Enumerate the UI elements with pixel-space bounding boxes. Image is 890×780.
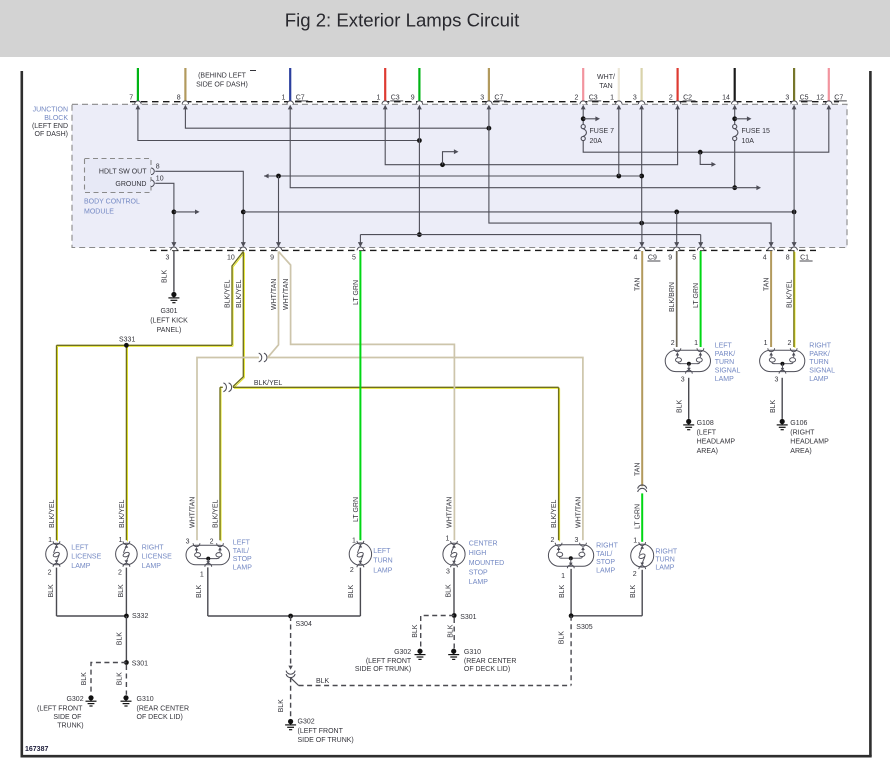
svg-text:TURN: TURN [655, 557, 674, 564]
svg-text:BLK: BLK [412, 624, 419, 638]
svg-text:BLK: BLK [559, 631, 566, 645]
svg-text:2: 2 [210, 538, 214, 545]
svg-text:TAN: TAN [635, 463, 642, 476]
svg-text:WHT/: WHT/ [597, 74, 615, 81]
svg-text:1: 1 [610, 94, 614, 101]
svg-text:BLK: BLK [677, 399, 684, 413]
svg-text:WHT/TAN: WHT/TAN [283, 279, 290, 310]
svg-text:20A: 20A [590, 138, 603, 145]
svg-text:WHT/TAN: WHT/TAN [271, 279, 278, 310]
svg-text:TAN: TAN [599, 83, 612, 90]
svg-text:LAMP: LAMP [655, 565, 674, 572]
svg-text:C5: C5 [800, 94, 809, 101]
svg-text:STOP: STOP [233, 556, 252, 563]
svg-text:1: 1 [281, 94, 285, 101]
svg-text:G310: G310 [464, 649, 481, 656]
svg-text:Fig 2: Exterior Lamps Circuit: Fig 2: Exterior Lamps Circuit [285, 10, 520, 31]
svg-text:4: 4 [633, 255, 637, 262]
svg-text:BLK: BLK [196, 584, 203, 598]
svg-text:G301: G301 [160, 308, 177, 315]
svg-text:CENTER: CENTER [469, 541, 498, 548]
svg-text:BLK: BLK [118, 584, 125, 598]
svg-text:RIGHT: RIGHT [142, 545, 165, 552]
svg-text:(REAR CENTER: (REAR CENTER [137, 705, 190, 712]
svg-text:FUSE 7: FUSE 7 [590, 128, 615, 135]
svg-text:G310: G310 [137, 696, 154, 703]
svg-text:WHT/TAN: WHT/TAN [447, 497, 454, 528]
svg-text:OF DASH): OF DASH) [35, 131, 68, 138]
svg-text:3: 3 [186, 538, 190, 545]
svg-text:HEADLAMP: HEADLAMP [790, 439, 829, 446]
svg-text:LT GRN: LT GRN [353, 497, 360, 522]
svg-text:LT GRN: LT GRN [693, 283, 700, 308]
svg-text:TAN: TAN [764, 278, 771, 291]
svg-text:G108: G108 [697, 420, 714, 427]
svg-text:LAMP: LAMP [715, 376, 734, 383]
svg-text:1: 1 [352, 537, 356, 544]
svg-text:1: 1 [694, 340, 698, 347]
svg-text:1: 1 [445, 536, 449, 543]
svg-text:G106: G106 [790, 420, 807, 427]
svg-text:(LEFT: (LEFT [697, 429, 717, 436]
svg-text:BODY CONTROL: BODY CONTROL [84, 199, 140, 206]
svg-text:BLK/YEL: BLK/YEL [551, 499, 558, 528]
svg-text:C7: C7 [296, 94, 305, 101]
svg-text:4: 4 [763, 255, 767, 262]
svg-text:(LEFT FRONT: (LEFT FRONT [366, 658, 412, 665]
svg-text:C1: C1 [800, 255, 809, 262]
svg-text:AREA): AREA) [697, 448, 718, 455]
svg-text:G302: G302 [66, 696, 83, 703]
svg-text:BLK: BLK [316, 678, 330, 685]
svg-text:S332: S332 [132, 613, 148, 620]
svg-text:C7: C7 [494, 94, 503, 101]
svg-text:OF DECK LID): OF DECK LID) [464, 666, 510, 673]
svg-text:C9: C9 [648, 255, 657, 262]
svg-text:BLK: BLK [445, 584, 452, 598]
svg-text:LAMP: LAMP [373, 567, 392, 574]
svg-text:2: 2 [48, 569, 52, 576]
svg-text:TRUNK): TRUNK) [57, 722, 83, 729]
svg-text:C3: C3 [589, 94, 598, 101]
svg-text:SIGNAL: SIGNAL [715, 368, 741, 375]
svg-text:1: 1 [633, 537, 637, 544]
svg-text:C7: C7 [834, 94, 843, 101]
svg-text:PANEL): PANEL) [157, 327, 182, 334]
svg-text:(LEFT FRONT: (LEFT FRONT [298, 728, 344, 735]
svg-text:RIGHT: RIGHT [655, 549, 678, 556]
svg-text:HDLT SW OUT: HDLT SW OUT [99, 169, 147, 176]
svg-text:MOUNTED: MOUNTED [469, 560, 504, 567]
svg-text:PARK/: PARK/ [715, 351, 736, 358]
svg-text:5: 5 [352, 255, 356, 262]
svg-text:5: 5 [692, 255, 696, 262]
svg-text:3: 3 [446, 569, 450, 576]
svg-text:SIDE OF: SIDE OF [53, 714, 81, 721]
svg-text:8: 8 [156, 164, 160, 171]
svg-text:BLK: BLK [81, 672, 88, 686]
svg-text:1: 1 [764, 340, 768, 347]
svg-text:1: 1 [118, 537, 122, 544]
svg-text:BLK/BRN: BLK/BRN [669, 282, 676, 312]
svg-text:G302: G302 [394, 649, 411, 656]
svg-text:LICENSE: LICENSE [71, 554, 101, 561]
svg-text:(RIGHT: (RIGHT [790, 429, 815, 436]
svg-text:STOP: STOP [469, 569, 488, 576]
svg-text:9: 9 [270, 255, 274, 262]
svg-text:10: 10 [227, 255, 235, 262]
svg-text:3: 3 [574, 537, 578, 544]
svg-text:10: 10 [156, 176, 164, 183]
svg-text:(LEFT END: (LEFT END [32, 123, 68, 130]
svg-text:WHT/TAN: WHT/TAN [190, 497, 197, 528]
svg-text:2: 2 [669, 94, 673, 101]
svg-text:G302: G302 [298, 719, 315, 726]
svg-text:10A: 10A [742, 138, 755, 145]
svg-text:BLK/YEL: BLK/YEL [786, 279, 793, 308]
svg-text:3: 3 [633, 94, 637, 101]
svg-text:LEFT: LEFT [233, 540, 251, 547]
svg-text:BLK: BLK [630, 584, 637, 598]
svg-text:1: 1 [200, 572, 204, 579]
svg-text:FUSE 15: FUSE 15 [742, 128, 771, 135]
svg-text:LT GRN: LT GRN [353, 280, 360, 305]
svg-text:TURN: TURN [809, 359, 828, 366]
svg-text:2: 2 [787, 340, 791, 347]
svg-text:BLK: BLK [448, 624, 455, 638]
svg-text:C3: C3 [391, 94, 400, 101]
svg-text:3: 3 [785, 94, 789, 101]
svg-text:LAMP: LAMP [469, 579, 488, 586]
svg-text:SIDE OF TRUNK): SIDE OF TRUNK) [355, 666, 411, 673]
svg-text:BLK: BLK [559, 584, 566, 598]
svg-text:9: 9 [411, 94, 415, 101]
svg-text:2: 2 [633, 571, 637, 578]
svg-text:(REAR CENTER: (REAR CENTER [464, 658, 517, 665]
svg-text:LAMP: LAMP [596, 568, 615, 575]
svg-text:2: 2 [671, 340, 675, 347]
svg-text:GROUND: GROUND [115, 181, 146, 188]
svg-text:14: 14 [722, 94, 730, 101]
svg-text:BLK: BLK [162, 269, 169, 283]
svg-text:LAMP: LAMP [809, 376, 828, 383]
svg-text:AREA): AREA) [790, 448, 811, 455]
svg-text:S331: S331 [119, 336, 135, 343]
svg-text:BLK: BLK [116, 632, 123, 646]
svg-text:JUNCTION: JUNCTION [33, 107, 68, 114]
svg-text:SIDE OF DASH): SIDE OF DASH) [196, 82, 248, 89]
svg-text:BLK/YEL: BLK/YEL [254, 380, 283, 387]
svg-text:HEADLAMP: HEADLAMP [697, 439, 736, 446]
svg-text:LEFT: LEFT [715, 342, 733, 349]
svg-text:8: 8 [177, 94, 181, 101]
svg-text:LAMP: LAMP [233, 564, 252, 571]
svg-text:LICENSE: LICENSE [142, 554, 172, 561]
svg-text:RIGHT: RIGHT [596, 543, 619, 550]
svg-text:S305: S305 [576, 624, 592, 631]
svg-text:TURN: TURN [373, 558, 392, 565]
svg-text:LEFT: LEFT [373, 548, 391, 555]
svg-text:(LEFT KICK: (LEFT KICK [150, 318, 188, 325]
svg-text:TURN: TURN [715, 359, 734, 366]
svg-text:S301: S301 [460, 614, 476, 621]
svg-text:WHT/TAN: WHT/TAN [576, 497, 583, 528]
svg-text:STOP: STOP [596, 559, 615, 566]
svg-text:SIDE OF TRUNK): SIDE OF TRUNK) [298, 737, 354, 744]
svg-text:BLK: BLK [770, 399, 777, 413]
svg-text:1: 1 [48, 537, 52, 544]
svg-text:3: 3 [480, 94, 484, 101]
svg-text:(LEFT FRONT: (LEFT FRONT [37, 705, 83, 712]
svg-text:1: 1 [561, 573, 565, 580]
svg-text:HIGH: HIGH [469, 550, 487, 557]
svg-text:BLK/YEL: BLK/YEL [49, 499, 56, 528]
svg-text:TAN: TAN [635, 278, 642, 291]
svg-text:2: 2 [550, 537, 554, 544]
svg-text:OF DECK LID): OF DECK LID) [137, 714, 183, 721]
svg-text:BLK/YEL: BLK/YEL [225, 279, 232, 308]
svg-text:2: 2 [574, 94, 578, 101]
svg-text:SIGNAL: SIGNAL [809, 368, 835, 375]
svg-text:1: 1 [376, 94, 380, 101]
svg-text:MODULE: MODULE [84, 208, 114, 215]
svg-text:LEFT: LEFT [71, 545, 89, 552]
svg-text:(BEHIND LEFT: (BEHIND LEFT [198, 73, 247, 80]
svg-text:RIGHT: RIGHT [809, 342, 832, 349]
svg-text:3: 3 [165, 255, 169, 262]
svg-text:BLK: BLK [348, 584, 355, 598]
svg-text:BLK/YEL: BLK/YEL [236, 279, 243, 308]
svg-text:BLOCK: BLOCK [44, 115, 68, 122]
svg-text:TAIL/: TAIL/ [596, 551, 612, 558]
svg-text:S301: S301 [132, 661, 148, 668]
svg-text:3: 3 [774, 377, 778, 384]
svg-text:BLK: BLK [48, 584, 55, 598]
svg-text:BLK/YEL: BLK/YEL [213, 499, 220, 528]
svg-text:BLK/YEL: BLK/YEL [119, 499, 126, 528]
svg-text:S304: S304 [296, 621, 312, 628]
svg-text:7: 7 [129, 94, 133, 101]
svg-text:LT GRN: LT GRN [635, 504, 642, 529]
svg-text:TAIL/: TAIL/ [233, 548, 249, 555]
svg-text:9: 9 [668, 255, 672, 262]
svg-text:C2: C2 [683, 94, 692, 101]
svg-text:12: 12 [816, 94, 824, 101]
svg-text:3: 3 [681, 377, 685, 384]
svg-text:LAMP: LAMP [71, 563, 90, 570]
svg-text:PARK/: PARK/ [809, 351, 830, 358]
svg-text:BLK: BLK [278, 699, 285, 713]
svg-text:167387: 167387 [25, 746, 48, 753]
svg-text:LAMP: LAMP [142, 563, 161, 570]
svg-text:BLK: BLK [116, 672, 123, 686]
svg-text:8: 8 [786, 255, 790, 262]
svg-text:2: 2 [350, 567, 354, 574]
svg-text:2: 2 [118, 569, 122, 576]
